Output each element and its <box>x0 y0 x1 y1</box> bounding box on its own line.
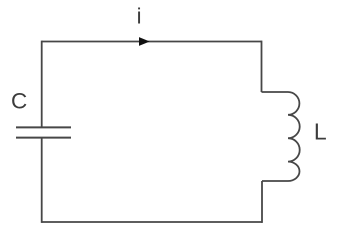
svg-text:L: L <box>314 119 327 145</box>
capacitor C bottom plate <box>16 137 71 139</box>
svg-text:i: i <box>137 4 142 29</box>
wire: left vertical upper (top corner down to capacitor) <box>41 41 43 128</box>
current arrow i on top wire <box>139 37 150 46</box>
wire: left vertical lower (capacitor down to bottom corner) <box>41 138 43 223</box>
svg-text:C: C <box>11 88 27 113</box>
wire: right vertical lower (inductor down to bottom corner) <box>261 181 263 223</box>
wire: bottom horizontal <box>42 221 262 223</box>
capacitor C top plate <box>16 126 71 128</box>
inductor L (coil with leads) <box>262 92 300 181</box>
wire: top horizontal (node A to node B) <box>42 41 262 43</box>
wire: right vertical upper (top corner down to inductor) <box>261 41 263 92</box>
